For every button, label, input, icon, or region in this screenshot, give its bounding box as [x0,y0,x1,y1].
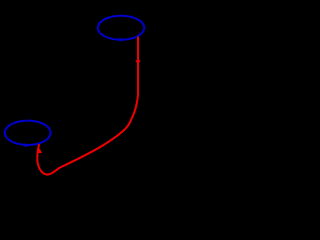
arrowhead on loop L1 (circulation direction, pointing right) [120,37,124,42]
arrowhead on loop L2 (circulation direction, pointing right) [25,143,30,148]
arrowhead on wire (bottom segment, pointing up into loop L2) [37,148,42,153]
arrowhead on wire (top segment, pointing down) [136,60,141,65]
wire (red connecting curve from loop L1 down and around to loop L2) [37,37,138,175]
loop L1 (top-right current loop) [98,16,144,40]
loop L2 (bottom-left current loop) [5,121,51,145]
